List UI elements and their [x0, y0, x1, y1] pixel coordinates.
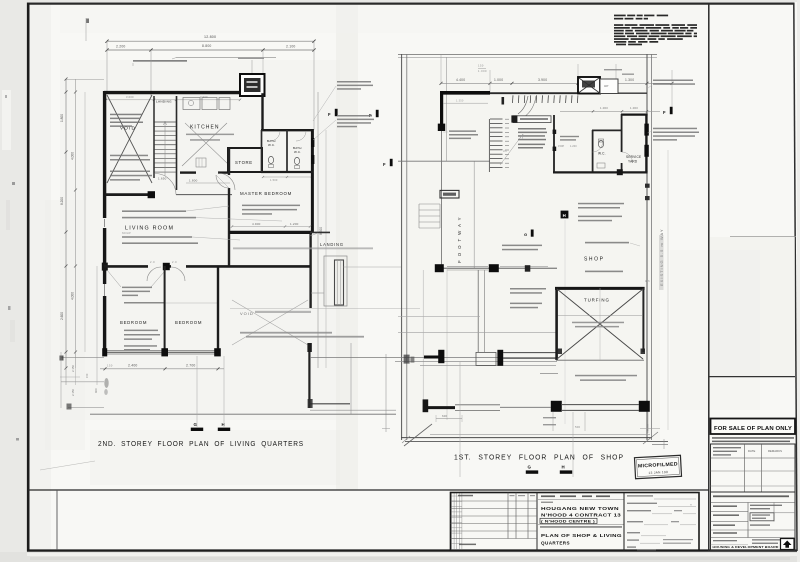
smudge left dim area [104, 378, 109, 395]
shop sw small box [476, 350, 503, 366]
void faint band line [230, 308, 420, 310]
bottom dim text 2.700 [186, 364, 196, 368]
right scan strip [797, 0, 800, 562]
svg-text:4.000: 4.000 [71, 152, 75, 160]
wc door swing [593, 142, 603, 152]
svg-text:PLAN OF SHOP & LIVING: PLAN OF SHOP & LIVING [541, 533, 622, 538]
site boundary left [402, 54, 407, 440]
svg-text:600: 600 [442, 414, 448, 418]
door arc bedroom2 [171, 267, 185, 281]
yard bottom post left [551, 401, 562, 412]
for sale notes [712, 437, 794, 442]
shaft leader note [238, 58, 264, 74]
wall service yard top [621, 113, 648, 115]
wall kitchen south right [218, 171, 229, 173]
yard bottom left stub [500, 406, 551, 408]
svg-text:1.000: 1.000 [600, 106, 608, 110]
room label BATH WC 2 [293, 146, 302, 154]
room label LANDING upper [156, 100, 172, 104]
store room walls [228, 148, 262, 172]
svg-text:2.600: 2.600 [60, 312, 64, 320]
inner dim row below top wall [105, 95, 241, 101]
top tick mark [86, 18, 89, 41]
stair well wall right [176, 96, 178, 190]
svg-text:LIVING ROOM: LIVING ROOM [125, 226, 174, 232]
svg-text:YARD: YARD [628, 160, 638, 164]
signature row 3 [627, 510, 696, 514]
svg-text:2.150: 2.150 [71, 365, 75, 372]
shop side double lines [478, 270, 484, 352]
svg-text:4.6: 4.6 [645, 279, 650, 283]
room label MASTER BEDROOM [240, 191, 292, 196]
stair direction diagonal [500, 134, 523, 165]
footway sw L-wall [423, 399, 500, 412]
footway edge line y161 [398, 160, 490, 162]
stair well wall left [153, 96, 155, 178]
marker extension lines [197, 356, 224, 427]
wc fixture marks [597, 163, 605, 168]
marker ext lines right plan [460, 362, 573, 477]
left dim lower ticks [60, 368, 98, 393]
top dimension text 12.800 [204, 35, 216, 39]
door post center [163, 263, 170, 270]
sw corner dim [436, 414, 462, 422]
site boundary top [398, 54, 657, 57]
boundary window posts [645, 184, 650, 201]
empty reference box [56, 490, 58, 550]
signature row 6 [627, 539, 693, 544]
drawing title label row [538, 525, 624, 528]
marker G right plan [526, 465, 538, 474]
engineer table columns [745, 444, 762, 492]
wall shaft to corner [261, 93, 263, 130]
marker H left plan [218, 422, 230, 431]
kitchen lower fixture marks [196, 158, 206, 167]
marker flag G top [524, 230, 534, 238]
bottom dim marks [543, 417, 660, 433]
bath door swings [270, 131, 306, 141]
kitchen notes [186, 134, 234, 141]
info arch row [711, 524, 796, 537]
bathroom divider wall [286, 130, 288, 172]
svg-text:SERVICE: SERVICE [626, 155, 641, 159]
svg-text:REMARKS: REMARKS [768, 449, 782, 453]
bedroom partition wall [164, 266, 166, 352]
site corner diagonal [402, 424, 658, 446]
wall turfing left [555, 288, 558, 360]
svg-text:1ST. STOREY FLOOR PLAN OF: 1ST. STOREY FLOOR PLAN OF SHOP [454, 453, 624, 462]
title 1st storey [454, 453, 624, 462]
svg-text:150: 150 [478, 64, 484, 68]
shop notes upper [585, 242, 640, 246]
right dim rotated text 8.200 [319, 227, 323, 235]
wall wc top [592, 129, 622, 131]
svg-text:UP: UP [604, 84, 609, 88]
door arc bedroom1 [147, 267, 161, 281]
cement note [124, 302, 218, 304]
bottom dim text 2.400 [128, 364, 138, 368]
engineer table box [711, 444, 796, 492]
title block outer box [451, 493, 700, 551]
left vertical dimension line b [74, 79, 77, 368]
svg-text:2.0: 2.0 [150, 260, 155, 264]
landing top wall stub [310, 232, 330, 236]
top dimension text 8.800 [202, 44, 212, 48]
wall under void and stairs [105, 191, 232, 198]
left vertical dimension line d [96, 266, 98, 385]
marker H right plan [560, 465, 572, 474]
svg-text:150: 150 [107, 364, 113, 368]
void notes middle [110, 155, 150, 161]
kitchen door swing diagonal b [185, 123, 228, 164]
svg-text:m: m [690, 504, 693, 507]
svg-text:12.800: 12.800 [204, 35, 216, 39]
yard bottom post right [639, 401, 650, 412]
svg-text:BEDROOM: BEDROOM [120, 320, 147, 325]
svg-text:2.200: 2.200 [116, 45, 126, 49]
right vertical dimension line b [325, 130, 327, 368]
bottom dim small left [107, 364, 113, 368]
right panel divider y376 [709, 376, 795, 378]
yard bottom wall lines [561, 405, 639, 411]
service yard window blocks [644, 124, 648, 157]
toilet fixture bath2 [294, 157, 299, 168]
svg-text:LANDING: LANDING [156, 100, 172, 104]
stair wall x489 [488, 119, 490, 172]
living room leader lines [186, 206, 282, 240]
signature row 5 [627, 532, 666, 536]
amendment table horizontals [451, 501, 538, 539]
svg-text:VOID: VOID [240, 311, 254, 316]
svg-text:W.C.: W.C. [598, 152, 606, 156]
svg-text:G: G [524, 232, 527, 237]
hdb logo [781, 539, 795, 550]
svg-text:1.350: 1.350 [456, 98, 464, 102]
svg-text:1.800: 1.800 [189, 179, 198, 183]
svg-text:1.000: 1.000 [630, 106, 638, 110]
top dimension text 2.100 [286, 45, 296, 49]
section flag F left a [328, 109, 338, 117]
bottom wall post left [102, 348, 107, 356]
room label STORE [235, 160, 253, 165]
wall right lower [309, 232, 311, 308]
top dimension line segments [105, 48, 315, 51]
svg-text:3.900: 3.900 [200, 95, 208, 99]
shop top inner dim [443, 98, 488, 103]
bath window marks right wall [311, 138, 314, 164]
svg-text:1.000: 1.000 [494, 78, 503, 82]
long band line a [310, 357, 556, 359]
signature row 4 [627, 521, 696, 525]
wall stub bottom landing [308, 399, 350, 408]
svg-text:H: H [563, 213, 566, 218]
info block box [711, 492, 796, 551]
master bedroom notes [242, 205, 300, 215]
left dim top tick row [66, 78, 104, 80]
void cross lower faint [232, 300, 308, 345]
master bedroom dim text [231, 222, 311, 228]
bottom left dim lines [60, 352, 105, 410]
svg-text:H: H [562, 465, 565, 470]
footway faint vertical x447 [446, 268, 448, 420]
wall shop front [437, 266, 557, 270]
info scale row [711, 503, 783, 538]
dim marks above divider [150, 260, 177, 264]
svg-text:2ND. STOREY FLOOR PLAN OF: 2ND. STOREY FLOOR PLAN OF LIVING QUARTER… [98, 439, 304, 448]
notes right of left plan lower [313, 115, 374, 140]
yard right notes upper [648, 80, 695, 89]
amendment table verticals [508, 493, 537, 551]
info supervisor row [711, 532, 796, 537]
wall left plan top [104, 91, 241, 94]
window rect footway wall [440, 190, 459, 198]
svg-text:150: 150 [85, 373, 89, 378]
stair treads [155, 122, 177, 172]
marker G left plan [191, 422, 203, 431]
svg-text:2.700: 2.700 [186, 364, 196, 368]
section marker H shop [561, 211, 569, 219]
engineer header texts [713, 447, 782, 456]
reference row text [459, 544, 476, 546]
signature row 1 [627, 495, 696, 499]
svg-text:1.500: 1.500 [270, 178, 278, 182]
stair notes box [511, 115, 551, 122]
living room notes upper [122, 210, 196, 218]
long band line c [420, 365, 556, 367]
bottom wall post mid [161, 348, 168, 356]
svg-text:1.300: 1.300 [625, 78, 634, 82]
site boundary bottom [401, 434, 668, 449]
svg-text:LANDING: LANDING [320, 242, 344, 247]
footway label [457, 216, 462, 263]
shop sw corner wall [424, 350, 444, 363]
notes right of left plan upper [313, 81, 373, 121]
stair flight upper treads [513, 95, 578, 103]
door arc stairs-living [155, 174, 176, 195]
microfilmed stamp [634, 455, 681, 478]
room label BATH WC 1 [267, 139, 276, 147]
svg-text:W.C.: W.C. [268, 143, 275, 147]
info drawing no row [711, 495, 796, 502]
svg-text:MASTER BEDROOM: MASTER BEDROOM [240, 191, 292, 196]
bottom scan strip [0, 552, 800, 562]
svg-text:F: F [663, 110, 666, 115]
turfing center line [599, 288, 601, 360]
bottom dimension line [100, 367, 224, 370]
wall right upper [311, 129, 314, 233]
shop notes near marker [578, 203, 624, 222]
turfing cross [557, 289, 643, 359]
wall shop top mid [490, 92, 578, 94]
svg-text:2.150: 2.150 [71, 389, 75, 396]
column note [122, 287, 152, 297]
landing boundary box [324, 256, 347, 306]
stair notes below box [518, 128, 547, 149]
svg-text:HOUGANG NEW TOWN: HOUGANG NEW TOWN [541, 506, 619, 511]
job title NHOOD [541, 513, 622, 518]
svg-text:4.000: 4.000 [71, 292, 75, 300]
title 2nd storey [98, 439, 304, 448]
wc toilet fixture [598, 139, 603, 148]
svg-text:1.000: 1.000 [478, 69, 487, 73]
right panel divider line [708, 3, 710, 551]
wall bath top [261, 129, 314, 131]
turfing dim text right [645, 279, 650, 283]
wall kitchen-living divider [228, 148, 230, 266]
svg-text:500: 500 [575, 425, 581, 429]
kitchen door swing diagonal a [182, 123, 227, 166]
svg-text:STORE: STORE [235, 160, 253, 165]
svg-text:600: 600 [94, 388, 98, 393]
left scan margin strip [0, 0, 27, 562]
svg-text:8.200: 8.200 [319, 227, 323, 235]
room label LANDING right [320, 242, 344, 247]
tally grid [452, 493, 462, 550]
wall left outer [102, 91, 108, 352]
job title header streaks [538, 495, 624, 499]
right vertical dimension line a [317, 92, 319, 368]
signature row 7 [627, 546, 656, 550]
section flag F left b [369, 110, 379, 118]
svg-text:F: F [328, 112, 331, 117]
dim text 1.800 [186, 179, 230, 184]
door arc wc yard [622, 152, 633, 163]
sheet frame bottom border [27, 549, 797, 551]
top leader line [172, 58, 276, 59]
stair handrail curves [518, 96, 536, 117]
stair landing wall [553, 115, 557, 172]
left vertical dimension line c [84, 92, 86, 352]
bathroom bottom wall [261, 171, 314, 173]
bedroom notes [124, 330, 160, 351]
svg-text:8.800: 8.800 [202, 44, 212, 48]
top dimension line overall [105, 40, 315, 43]
shaft top leader [604, 69, 634, 75]
job title label [541, 502, 553, 503]
specification notes text block [614, 15, 697, 46]
footway vertical x423 [422, 270, 424, 406]
wall right of shafts [618, 92, 647, 94]
kerb note [540, 373, 637, 381]
left dim rotated text 4.000a [71, 152, 75, 160]
footway inner line [442, 57, 447, 268]
svg-text:1.200: 1.200 [290, 222, 299, 226]
landing lower vertical [350, 343, 352, 414]
svg-text:QUARTERS: QUARTERS [541, 541, 570, 546]
bottom wall post right [214, 348, 221, 356]
right plan top dim line [440, 82, 674, 85]
room label BEDROOM 1 [120, 320, 147, 325]
top dimension text 2.200 [116, 45, 126, 49]
left margin specks [5, 95, 19, 441]
svg-text:dn: dn [503, 149, 507, 153]
room label LIVING ROOM [125, 226, 174, 232]
wall shop top heavy [440, 91, 490, 95]
title strip top line [28, 489, 709, 491]
wall master bedroom bottom [229, 231, 312, 234]
shop front post left [435, 264, 444, 272]
void over streak band [233, 247, 373, 249]
turfing bottom line [556, 359, 644, 361]
svg-text:600HP: 600HP [122, 231, 131, 235]
wall living-bedroom divider [104, 265, 310, 268]
smoke vent shaft box [240, 74, 265, 96]
landing window rect [335, 260, 344, 305]
room label VOID lower faint [240, 311, 311, 316]
door arc kitchen-living [216, 175, 229, 188]
shop mid faint section line [564, 220, 566, 424]
top extension line b [150, 50, 152, 96]
right panel faint shelf line [730, 236, 796, 238]
scan artifact diagonal [40, 461, 95, 470]
shop front post mid [489, 264, 499, 272]
drawing title PLAN OF [541, 533, 622, 538]
wall wc bottom [553, 169, 648, 175]
wall wc-yard divider [621, 114, 623, 172]
signature row 2 [627, 503, 696, 507]
bathroom left wall [261, 130, 263, 172]
left vertical dimension line a [65, 78, 68, 370]
left dim rotated text 4.000b [71, 292, 75, 300]
interplan dim vertical [382, 354, 390, 432]
dim text 1.650 [158, 177, 167, 181]
footway mid vertical [473, 161, 475, 268]
site boundary right [647, 54, 652, 440]
service way label [659, 228, 664, 290]
toilet fixture bath1 [268, 156, 273, 167]
shop south wall lines [503, 353, 557, 359]
svg-text:BEDROOM: BEDROOM [175, 320, 202, 325]
stair lower dashes [490, 119, 509, 168]
top extension line a [106, 41, 108, 92]
sheet frame top border [27, 2, 795, 4]
turfing corner blobs [557, 349, 645, 355]
svg-text:N'HOOD 4 CONTRACT 13: N'HOOD 4 CONTRACT 13 [541, 513, 622, 518]
svg-text:1.650: 1.650 [158, 177, 167, 181]
svg-text:HOUSING & DEVELOPMENT BOARD: HOUSING & DEVELOPMENT BOARD [713, 545, 780, 549]
info date row [711, 503, 796, 522]
left dim rotated text 1.800 [60, 114, 64, 122]
bottom ext lines [553, 412, 648, 431]
turfing center notes [572, 322, 624, 328]
void notes lower [110, 171, 152, 181]
footway horizontal band y316 [398, 315, 480, 317]
wc top dim line [560, 106, 660, 113]
engineer table header line [711, 457, 796, 459]
top small dim marks [478, 64, 487, 73]
svg-text:2.100: 2.100 [286, 45, 296, 49]
svg-text:8.200: 8.200 [60, 197, 64, 205]
footway notes right [502, 245, 546, 309]
room label VOID upper [120, 126, 136, 131]
svg-text:DATE: DATE [748, 449, 755, 453]
left dim rotated text 2.600 [60, 312, 64, 320]
bedroom right wall [217, 266, 219, 352]
room label KITCHEN [190, 125, 220, 131]
bath dim row [262, 176, 313, 182]
engineer table row lines [711, 471, 796, 486]
service way dim vertical [667, 150, 669, 430]
void notes upper block [110, 114, 143, 127]
living room notes lower [122, 231, 198, 244]
top extension line c [262, 50, 264, 74]
void lower notes band [240, 332, 364, 338]
section flag F right [663, 107, 673, 115]
yard right notes lower [648, 128, 699, 141]
landing inner line [311, 267, 401, 293]
svg-text:1.200: 1.200 [570, 145, 577, 148]
ground line below left plan [90, 410, 396, 414]
